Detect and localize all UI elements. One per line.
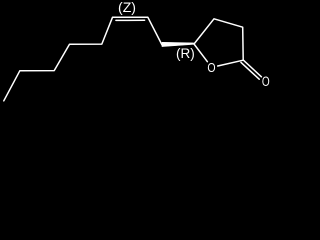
svg-text:O: O <box>207 60 215 75</box>
svg-text:(R): (R) <box>176 46 195 61</box>
svg-text:O: O <box>262 74 270 89</box>
svg-text:(Z): (Z) <box>118 0 136 15</box>
